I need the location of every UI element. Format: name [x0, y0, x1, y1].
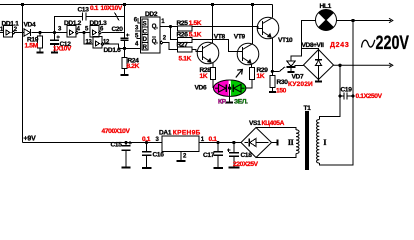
- svg-text:0.1: 0.1: [209, 136, 218, 143]
- wire VT9 emitter to R29: [251, 64, 254, 68]
- winding II: [296, 130, 299, 154]
- wire input signal line y=32.5: [0, 32, 125, 34]
- inverter DD1.6: [93, 37, 104, 49]
- svg-text:HL1: HL1: [320, 3, 332, 10]
- resistor R30: [271, 71, 273, 75]
- wire LED center tap: [229, 84, 231, 102]
- svg-text:VT8: VT8: [214, 33, 226, 40]
- thyristor VD7: [290, 55, 292, 61]
- node E junction pin1/R25/R26: [169, 25, 172, 28]
- svg-text:5.1K: 5.1K: [179, 56, 192, 63]
- node top bus junction C20: [123, 3, 126, 6]
- resistor R25: [178, 26, 193, 31]
- ground R19: [37, 51, 44, 53]
- winding I: [317, 120, 320, 164]
- svg-text:T1: T1: [304, 105, 312, 112]
- wire 220V terminal arrow bottom from bridge right vertex: [334, 63, 393, 67]
- transistor VT9: [237, 43, 259, 65]
- svg-text:C19: C19: [341, 87, 353, 94]
- pin 6 stub DD2: [138, 18, 141, 23]
- node top bus junction at left rail: [21, 3, 24, 6]
- svg-text:R30: R30: [277, 79, 289, 86]
- leader line from C13 value: [115, 13, 120, 21]
- svg-text:C16: C16: [153, 151, 165, 158]
- transformer core: [305, 111, 309, 170]
- svg-text:1K: 1K: [257, 73, 265, 80]
- wire top bus: [0, 4, 273, 6]
- LED VD6 bicolor: [214, 80, 246, 96]
- capacitor C17: [216, 141, 219, 144]
- wire VT8 collector to top bus: [212, 5, 214, 44]
- wire bridge left vertex to VD7: [295, 66, 304, 67]
- svg-text:VD4: VD4: [24, 22, 36, 29]
- svg-text:C18: C18: [241, 152, 253, 159]
- svg-text:VS1: VS1: [249, 120, 261, 127]
- capacitor C19: [339, 95, 342, 98]
- resistor R28: [210, 68, 215, 80]
- node G junction lamp / 220V line: [351, 19, 354, 22]
- svg-text:Д243: Д243: [330, 42, 349, 49]
- wire VS1 top vertex to winding II: [256, 128, 296, 130]
- transistor VT10: [257, 17, 279, 39]
- ground R24: [121, 74, 129, 76]
- svg-text:КР.: КР.: [218, 99, 227, 106]
- svg-text:220X25V: 220X25V: [233, 161, 259, 168]
- resistor R19: [39, 33, 41, 37]
- node H junction arrow / C19 branch: [338, 64, 341, 67]
- wire right vertical from node G down to transformer: [319, 21, 353, 166]
- pin 5 stub DD2: [137, 38, 141, 40]
- wire lamp right lead: [337, 20, 354, 22]
- resistor R27: [178, 47, 193, 52]
- wire VT9 collector to top bus: [252, 5, 254, 45]
- svg-text:VD8÷VII: VD8÷VII: [302, 42, 325, 49]
- wire 220V terminal arrow top: [353, 18, 393, 22]
- svg-text:C20: C20: [112, 26, 124, 33]
- svg-text:13: 13: [86, 39, 93, 45]
- wire C19 branch vertical: [319, 65, 340, 119]
- svg-text:1.5M: 1.5M: [25, 43, 39, 50]
- svg-text:10X10V: 10X10V: [101, 5, 123, 12]
- svg-text:КРЕН9Б: КРЕН9Б: [173, 129, 201, 136]
- svg-text:0.1: 0.1: [90, 5, 99, 12]
- transistor VT8: [197, 42, 219, 64]
- wire left +9V rail vertical: [22, 5, 24, 143]
- pin 1 output wire DD2: [160, 26, 178, 28]
- capacitor C20 electrolytic: [124, 5, 126, 49]
- diode bridge VD8-VD11: [304, 50, 334, 80]
- inverter DD1.3: [90, 26, 101, 38]
- pin 3 stub DD2: [135, 30, 141, 32]
- inverter DD1.1: [4, 26, 15, 38]
- capacitor C16: [145, 141, 148, 144]
- wire VS1 bottom vertex to winding II: [256, 154, 296, 158]
- wire R25 to VT10 base: [192, 27, 263, 29]
- node C junction between DD1.2 and DD1.3: [82, 31, 85, 34]
- wire gate to thyristor: [272, 67, 285, 71]
- resistor R24: [124, 48, 126, 57]
- svg-text:150: 150: [276, 88, 287, 95]
- svg-text:КУ202И: КУ202И: [288, 81, 313, 88]
- svg-text:R25: R25: [177, 20, 189, 27]
- svg-text:1X10V: 1X10V: [53, 45, 72, 52]
- wire bridge top vertex feed: [302, 49, 319, 50]
- wire R27 to VT8 base: [192, 49, 202, 51]
- svg-text:Q,: Q,: [152, 24, 158, 30]
- svg-text:4700X10V: 4700X10V: [102, 128, 131, 135]
- label 220V mains: [362, 40, 375, 48]
- node D junction C20/R24/DD1.6: [123, 47, 126, 50]
- arrow LED indicator: [236, 69, 243, 77]
- svg-text:+9V: +9V: [24, 136, 37, 143]
- svg-text:8.2K: 8.2K: [127, 63, 140, 70]
- svg-text:0.1X250V: 0.1X250V: [356, 93, 383, 100]
- wire R26 to VT9 base: [192, 40, 242, 52]
- svg-text:R26: R26: [177, 32, 189, 39]
- svg-text:КЦ405А: КЦ405А: [262, 120, 285, 127]
- svg-text:5.1K: 5.1K: [189, 32, 202, 39]
- svg-text:R27: R27: [177, 41, 189, 48]
- svg-text:VD6: VD6: [195, 85, 207, 92]
- ground R30: [269, 91, 276, 93]
- svg-text:1K: 1K: [200, 73, 208, 80]
- ground LED: [226, 101, 233, 103]
- svg-text:DA1: DA1: [159, 129, 172, 136]
- svg-text:DD1.6: DD1.6: [104, 47, 122, 54]
- ground C12: [51, 51, 58, 53]
- flip-flop DD2: [141, 17, 161, 53]
- wire winding I bottom lead: [318, 163, 320, 165]
- svg-text:220V: 220V: [376, 33, 410, 54]
- svg-text:C17: C17: [203, 152, 215, 159]
- svg-text:ЗЕЛ.: ЗЕЛ.: [234, 99, 248, 106]
- regulator DA1: [162, 136, 199, 152]
- capacitor C13: [55, 17, 125, 33]
- node F junction VT10 emitter / R30 / VD7 gate: [271, 70, 274, 73]
- wire node D to DD2 R pin: [125, 47, 141, 49]
- node B junction C12/C13: [53, 31, 56, 34]
- svg-text:C13: C13: [78, 7, 90, 14]
- inverter DD1.2: [67, 26, 78, 38]
- capacitor C12: [54, 33, 56, 52]
- node A junction VD4/R19: [38, 31, 41, 34]
- wire branch to DD1.6: [84, 33, 124, 49]
- svg-text:C15: C15: [111, 141, 123, 148]
- wire VT10 emitter down: [271, 38, 273, 71]
- svg-text:DD2: DD2: [145, 11, 158, 18]
- svg-text:VT9: VT9: [234, 33, 246, 40]
- wire VT8 emitter to R28: [212, 63, 214, 68]
- wire DA1 output: [199, 142, 241, 144]
- wire top bus corner down to VT10 collector: [272, 5, 274, 18]
- wire bridge bottom vertex terminal: [318, 80, 320, 81]
- resistor R29: [250, 68, 255, 80]
- capacitor C15 electrolytic: [124, 141, 127, 144]
- ground bridge bottom: [315, 80, 322, 82]
- wire lamp left lead down to bridge: [291, 21, 316, 56]
- svg-text:VT10: VT10: [278, 37, 293, 44]
- ground VD7 cathode: [288, 71, 295, 73]
- svg-text:0.1: 0.1: [142, 136, 151, 143]
- wire VS1 right vertex terminal: [272, 142, 278, 144]
- capacitor C18 electrolytic: [232, 141, 235, 144]
- svg-text:Q,: Q,: [152, 39, 158, 45]
- wire bottom +9V rail: [23, 142, 242, 144]
- wire DA1 pin2 ground: [180, 152, 182, 161]
- rectifier bridge VS1: [241, 128, 272, 158]
- svg-text:VD7: VD7: [292, 74, 304, 81]
- resistor R26: [178, 37, 193, 42]
- pin 2 output wire DD2 with inversion bubble: [160, 41, 163, 44]
- svg-text:12: 12: [103, 39, 110, 45]
- svg-text:DD1.3: DD1.3: [90, 20, 108, 27]
- svg-text:S: S: [143, 22, 147, 28]
